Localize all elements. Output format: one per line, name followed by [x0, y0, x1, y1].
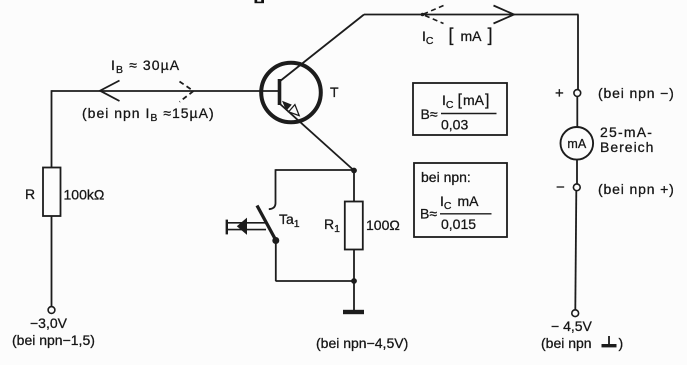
wire to ground: [353, 283, 355, 310]
svg-text:mA: mA: [567, 137, 586, 151]
svg-text:(bei npn +): (bei npn +): [598, 181, 675, 197]
wire meter to minus terminal: [576, 160, 578, 184]
svg-text:−3,0V: −3,0V: [30, 315, 68, 331]
wire right vertical lower: [575, 191, 576, 310]
resistor R: [43, 168, 61, 217]
wire bottom rail: [276, 280, 355, 282]
switch Ta1: [227, 169, 279, 281]
svg-text:(bei npn −): (bei npn −): [598, 85, 675, 101]
svg-text:100kΩ: 100kΩ: [64, 187, 105, 203]
ground: [343, 310, 364, 314]
svg-text:): ): [619, 335, 624, 351]
terminal -3,0V: [48, 307, 55, 314]
terminal plus: [574, 90, 581, 97]
wire right vertical upper: [577, 15, 579, 91]
milliammeter mA: [561, 127, 594, 160]
node bottom junction: [351, 278, 357, 284]
svg-text:Bereich: Bereich: [600, 139, 654, 155]
cut-off caption descender g: [255, 0, 265, 3]
wire left vertical lower: [51, 216, 53, 307]
svg-text:B≈: B≈: [420, 206, 437, 222]
wire left vertical upper: [51, 90, 53, 167]
current arrow IC pnp solid: [494, 6, 515, 24]
svg-text:+: +: [555, 85, 564, 102]
formula box B = IC/0,03: [413, 83, 507, 135]
terminal minus: [573, 184, 580, 191]
svg-text:(bei npn−4,5V): (bei npn−4,5V): [316, 335, 408, 351]
svg-text:0,015: 0,015: [441, 216, 476, 232]
wire to meter: [576, 96, 578, 127]
svg-text:100Ω: 100Ω: [366, 217, 400, 233]
wire R1 bottom lead: [353, 250, 355, 282]
current arrow IB pnp solid: [100, 81, 120, 102]
svg-text:B≈: B≈: [421, 106, 438, 122]
formula box bei npn B = IC/0,015: [414, 163, 507, 237]
transistor T: [261, 15, 364, 171]
wire collector top horizontal: [364, 14, 579, 16]
svg-text:(bei npn: (bei npn: [541, 335, 592, 351]
current arrow IB npn dashed: [180, 82, 194, 102]
wire base horizontal: [52, 90, 280, 92]
svg-text:−: −: [556, 179, 565, 196]
svg-text:0,03: 0,03: [441, 117, 468, 133]
svg-text:− 4,5V: − 4,5V: [551, 318, 593, 334]
svg-text:25-mA-: 25-mA-: [600, 124, 653, 140]
node emitter junction: [351, 168, 357, 174]
svg-text:bei npn:: bei npn:: [421, 169, 471, 185]
svg-text:R: R: [25, 186, 35, 202]
wire R1 top lead: [353, 171, 355, 202]
terminal -4,5V: [572, 310, 579, 317]
wire switch branch top: [276, 169, 355, 171]
label bei npn ground: [541, 335, 623, 351]
svg-text:T: T: [330, 84, 339, 100]
current arrow IC npn dashed: [421, 6, 444, 24]
svg-text:(bei npn−1,5): (bei npn−1,5): [12, 332, 95, 348]
resistor R1: [345, 202, 363, 250]
